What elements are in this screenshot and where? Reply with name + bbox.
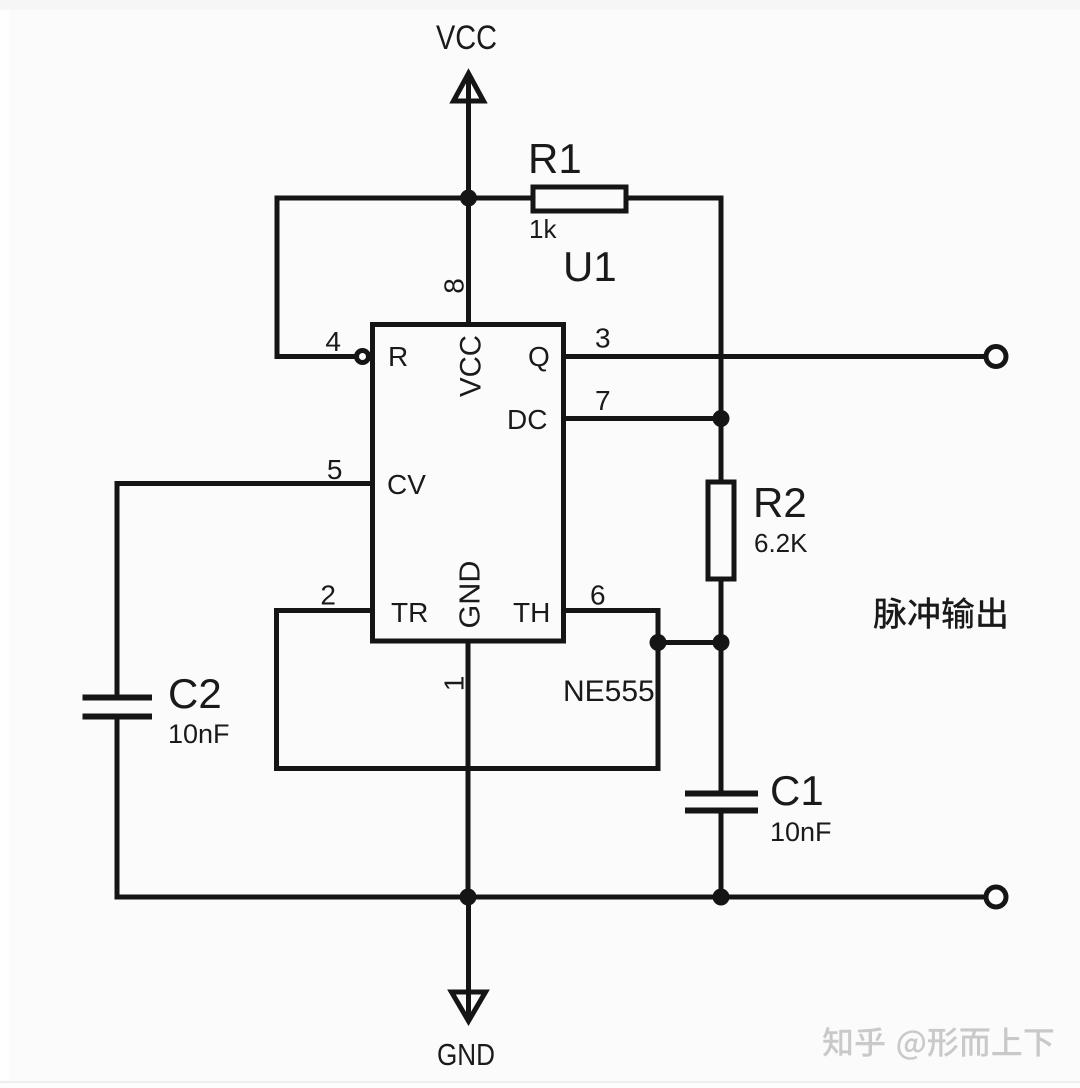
- svg-text:NE555: NE555: [563, 675, 655, 708]
- wire pin 6 horizontal: [564, 608, 659, 613]
- wire pin 8 vertical: [466, 198, 471, 325]
- wire left rail to C2: [115, 484, 120, 695]
- svg-text:CV: CV: [387, 469, 426, 500]
- resistor R1 body: [533, 187, 626, 211]
- junction dot rail bottom: [713, 889, 730, 906]
- svg-text:GND: GND: [455, 561, 487, 629]
- svg-text:10nF: 10nF: [770, 817, 832, 847]
- svg-text:R: R: [388, 341, 408, 372]
- op IC U1 NE555 box: [373, 325, 564, 642]
- wire C1 bottom lead: [719, 813, 724, 897]
- capacitor C2 top plate: [86, 695, 150, 701]
- junction dot pin7 rail: [713, 410, 730, 427]
- svg-text:1: 1: [439, 676, 470, 692]
- pin 4 inverter bubble: [357, 351, 369, 363]
- output terminal lower: [986, 887, 1006, 907]
- svg-text:TH: TH: [513, 597, 550, 628]
- wire TR loop left vertical: [274, 611, 279, 769]
- svg-text:VCC: VCC: [455, 335, 488, 397]
- svg-text:2: 2: [320, 580, 336, 611]
- svg-text:1k: 1k: [529, 214, 557, 244]
- svg-text:C2: C2: [168, 670, 222, 717]
- wire R2 bottom to C1: [719, 579, 724, 790]
- svg-text:R1: R1: [528, 135, 582, 182]
- capacitor C1 bottom plate: [688, 808, 755, 814]
- wire pin 3 output: [564, 354, 985, 359]
- wire pin 5 horizontal: [117, 481, 373, 486]
- wire TR loop bottom: [277, 766, 659, 771]
- junction dot gnd rail: [460, 889, 477, 906]
- svg-text:6.2K: 6.2K: [754, 528, 808, 558]
- svg-text:U1: U1: [563, 243, 617, 290]
- capacitor C2 bottom plate: [86, 714, 150, 720]
- junction dot rail mid: [713, 634, 730, 651]
- svg-text:3: 3: [595, 323, 611, 354]
- resistor R2 body: [708, 482, 734, 579]
- power symbol VCC arrow: [454, 74, 484, 199]
- ground symbol triangle: [452, 992, 486, 1021]
- wire TR loop right vertical: [656, 611, 661, 769]
- wire node link TH to rail: [658, 640, 721, 645]
- svg-text:Q: Q: [528, 341, 550, 372]
- wire right rail upper: [719, 198, 724, 482]
- junction dot TH loop: [650, 634, 667, 651]
- chinese label pulse output: [874, 597, 1006, 629]
- wire bottom rail: [117, 895, 984, 900]
- svg-text:C1: C1: [770, 767, 824, 814]
- wire feedback left vertical: [275, 198, 280, 357]
- svg-text:4: 4: [325, 326, 341, 357]
- svg-text:GND: GND: [437, 1037, 495, 1072]
- svg-text:10nF: 10nF: [168, 719, 230, 749]
- svg-text:DC: DC: [507, 404, 547, 435]
- junction dot VCC top rail: [460, 190, 477, 207]
- svg-text:TR: TR: [391, 597, 428, 628]
- wire top rail right of R1: [626, 196, 721, 201]
- capacitor C1 top plate: [688, 791, 755, 797]
- svg-text:R2: R2: [753, 479, 807, 526]
- wire C2 bottom lead: [115, 719, 120, 897]
- svg-text:5: 5: [327, 454, 343, 485]
- svg-text:VCC: VCC: [436, 19, 497, 57]
- ground symbol lead: [466, 897, 471, 1019]
- svg-text:7: 7: [595, 385, 611, 416]
- svg-text:6: 6: [590, 580, 606, 611]
- watermark zhihu: [823, 1027, 1053, 1060]
- svg-text:8: 8: [439, 278, 470, 294]
- wire pin 4 horizontal: [277, 354, 353, 359]
- wire top rail left: [277, 196, 533, 201]
- output terminal upper: [986, 347, 1006, 367]
- wire pin 2 horizontal: [277, 608, 373, 613]
- wire pin 7 horizontal: [564, 416, 722, 421]
- wire pin 1 vertical: [466, 641, 471, 897]
